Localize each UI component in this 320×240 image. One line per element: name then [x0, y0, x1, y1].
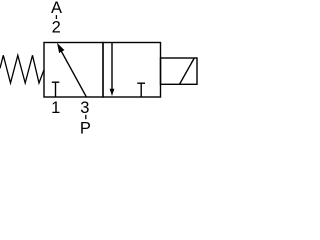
svg-text:P: P [80, 120, 91, 138]
svg-text:2: 2 [52, 18, 61, 36]
valve body left square (position 1) [44, 43, 103, 98]
flow path arrow down (right square) [110, 43, 115, 97]
return spring [0, 55, 44, 83]
tick between A and 2 [55, 15, 57, 19]
valve body right square (position 2) [103, 43, 161, 98]
solenoid coil box [161, 58, 198, 84]
svg-text:A: A [51, 0, 62, 17]
flow path arrow 3-to-2 (left square) [57, 43, 86, 97]
blocked port symbol (T, right square) [137, 83, 145, 97]
tick between 3 and P [85, 115, 87, 119]
blocked port 1 symbol (T) [52, 82, 60, 97]
solenoid diagonal [180, 58, 195, 84]
svg-text:1: 1 [51, 99, 60, 117]
svg-text:3: 3 [80, 99, 89, 117]
